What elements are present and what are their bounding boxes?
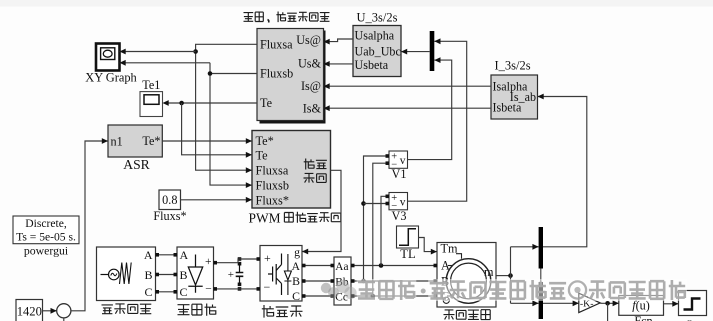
svg-text:Fluxsb: Fluxsb [256, 179, 290, 193]
svg-text:powergui: powergui [24, 244, 69, 258]
svg-text:B: B [292, 274, 300, 288]
label: induction motor (4 CJK) [444, 310, 491, 320]
port squares: source/rectifier [155, 253, 177, 294]
svg-text:−: − [205, 284, 212, 296]
svg-text:Usalpha: Usalpha [355, 28, 395, 42]
svg-text:Te: Te [256, 149, 269, 163]
svg-text:Tm: Tm [441, 241, 458, 255]
svg-text:1420: 1420 [17, 304, 42, 318]
demux/selector bar (rotor speed) [539, 282, 543, 319]
label: observer title (8 CJK chars) [244, 12, 330, 23]
svg-text:Fluxsb: Fluxsb [260, 67, 293, 81]
wire: feedback stub into sum from bottom edge [63, 318, 65, 321]
scope XY Graph [85, 44, 137, 85]
wire: Fluxsb from observer to XY Graph and PWM [120, 60, 258, 188]
svg-text:Us@: Us@ [296, 33, 321, 47]
svg-text:Fluxs*: Fluxs* [153, 209, 186, 223]
wire: Isalpha to observer Is@ [324, 83, 492, 89]
svg-text:U_3s/2s: U_3s/2s [357, 11, 398, 25]
wire: motor m output to selectors [496, 244, 539, 306]
port squares: inverter ABC / measurement block [302, 264, 355, 298]
svg-text:Te1: Te1 [142, 78, 160, 92]
port squares: motor ABC [434, 264, 438, 298]
wire: DC- rail rectifier to inverter [214, 288, 261, 290]
svg-text:v: v [400, 155, 406, 167]
wire: gain to Fcn, branch down to bottom edge [600, 300, 619, 321]
wire: speed error from sum to ASR n1 [71, 138, 108, 311]
svg-text:Fcn: Fcn [634, 314, 652, 321]
wires: source A/B/C to rectifier [156, 255, 178, 292]
wire: phase B to motor, taps to V1+ and V3- [351, 156, 437, 283]
wire: mux output to U_3s/2s Uab_Ubc [401, 49, 430, 55]
svg-text:I_3s/2s: I_3s/2s [494, 59, 530, 73]
rectifier (zhengliuqi) diode bridge [177, 247, 214, 299]
svg-text:+: + [205, 256, 212, 268]
svg-text:Fluxsa: Fluxsa [260, 38, 293, 52]
svg-text:V3: V3 [392, 209, 407, 223]
label: inverter (3 CJK) [262, 305, 303, 318]
svg-text:Ts = 5e-05 s.: Ts = 5e-05 s. [16, 230, 76, 243]
port squares: V1 V3 inputs [386, 154, 390, 205]
induction motor (yibu dianji) [437, 241, 496, 307]
wire: Usalpha to observer Us@ [324, 39, 354, 45]
svg-text:Usbeta: Usbeta [355, 58, 389, 72]
function block Fcn f(u) [619, 296, 664, 321]
svg-text:Aa: Aa [335, 261, 348, 273]
wire: Te from observer to Te1 and PWM [163, 100, 258, 158]
watermark: gray CJK text band [357, 279, 688, 301]
svg-text:0.8: 0.8 [162, 193, 177, 207]
display Te1 [140, 78, 163, 117]
svg-text:Isbeta: Isbeta [493, 101, 523, 115]
label: three-phase source (4 CJK) [102, 304, 152, 314]
label: rectifier (3 CJK) [178, 304, 217, 316]
svg-text:B: B [144, 268, 152, 282]
wire: PWM pulses to inverter gate g [302, 170, 341, 254]
svg-text:−: − [264, 280, 271, 294]
svg-text:XY Graph: XY Graph [85, 71, 137, 85]
svg-text:C: C [292, 289, 300, 303]
svg-text:n: n [687, 317, 693, 321]
svg-text:Us&: Us& [298, 57, 322, 71]
wire: phase C to motor, tap to V1- [351, 163, 437, 298]
wire: Fcn to display [664, 301, 679, 307]
wire: V1 output to mux lower input [408, 57, 452, 159]
svg-text:A: A [144, 248, 153, 262]
svg-text:Te*: Te* [256, 134, 274, 148]
svg-text:A: A [180, 248, 189, 262]
wire: Fluxsa from observer to XY Graph and PWM [120, 44, 258, 173]
svg-text:Fluxsa: Fluxsa [256, 164, 289, 178]
svg-text:Is@: Is@ [301, 79, 321, 93]
svg-text:PWM: PWM [249, 210, 281, 225]
wire: DC+ rail rectifier to inverter [214, 259, 261, 263]
wires: inverter A/B/C to measurement block [302, 266, 334, 297]
svg-text:Fluxs*: Fluxs* [256, 193, 290, 207]
label: PWM pulse generator title [249, 210, 341, 225]
svg-text:Te*: Te* [142, 134, 160, 148]
svg-text:Is&: Is& [303, 102, 322, 116]
powergui block (Discrete, Ts = 5e-05 s.) [13, 216, 79, 258]
wire: Usbeta to observer Us& [324, 61, 354, 67]
svg-text:TL: TL [400, 247, 415, 261]
dc link capacitor C1 [228, 257, 244, 291]
svg-text:C: C [180, 285, 188, 299]
wire: selector speed output to gain [543, 300, 579, 306]
wire: ASR Te* output to PWM [162, 138, 252, 144]
sum junction (speed error) [57, 304, 71, 318]
svg-text:A: A [291, 259, 300, 273]
svg-text:Discrete,: Discrete, [25, 217, 67, 230]
svg-text:B: B [180, 268, 188, 282]
three-phase V-I measurement block (Aa Bb Cc) [334, 257, 351, 305]
wire: 1420 to sum [43, 308, 57, 314]
wire: phase A to motor, tap to V3+ [351, 196, 437, 268]
wire linking selector bars [540, 269, 542, 283]
wire: selector output Is_ab to I_3s/2s [538, 94, 587, 247]
svg-text:C: C [144, 285, 152, 299]
subsystem U_3s/2s [353, 11, 401, 77]
controller ASR [108, 125, 162, 172]
svg-text:+: + [264, 251, 271, 265]
subsystem I_3s/2s [491, 59, 538, 120]
wire: TL to motor Tm [419, 238, 438, 255]
step source TL (load torque) [397, 226, 419, 261]
svg-text:Uab_Ubc: Uab_Ubc [355, 45, 401, 59]
display block (speed) [679, 291, 707, 321]
constant 0.8 (Fluxs*) [153, 190, 186, 223]
wire: Isbeta to observer Is& [324, 105, 492, 111]
svg-text:g: g [294, 245, 300, 259]
svg-text:n1: n1 [111, 135, 123, 149]
svg-text:Te: Te [260, 96, 272, 110]
svg-text:ASR: ASR [123, 157, 150, 172]
voltage measurement V3 [389, 193, 408, 223]
constant 1420 (speed reference) [16, 300, 43, 321]
wire: V3 output to mux upper input [408, 38, 467, 201]
mux (voltage) [430, 31, 435, 71]
svg-text:v: v [400, 197, 406, 209]
subsystem PWM pulse generator [252, 131, 331, 209]
watermark: logo circles [321, 280, 357, 299]
three-phase source (sanxiang dianyuan) [97, 247, 156, 301]
svg-text:V1: V1 [392, 167, 407, 181]
wire: 0.8 constant to PWM Fluxs* [181, 197, 253, 203]
svg-text:+: + [228, 269, 234, 281]
gain -K- [579, 293, 600, 312]
port squares: rectifier DC out / inverter DC in [213, 257, 260, 291]
label: pulse signal (CJK 2x2) inside PWM block [304, 159, 327, 183]
voltage measurement V1 [389, 151, 408, 181]
top gray band [0, 0, 713, 7]
subsystem U1 flux/torque observer (cizhuan-zhuanju-guanceqi) [257, 29, 326, 124]
inverter (nibianqi) IGBT bridge [260, 245, 302, 303]
demux/selector bar (stator currents) [539, 227, 543, 269]
